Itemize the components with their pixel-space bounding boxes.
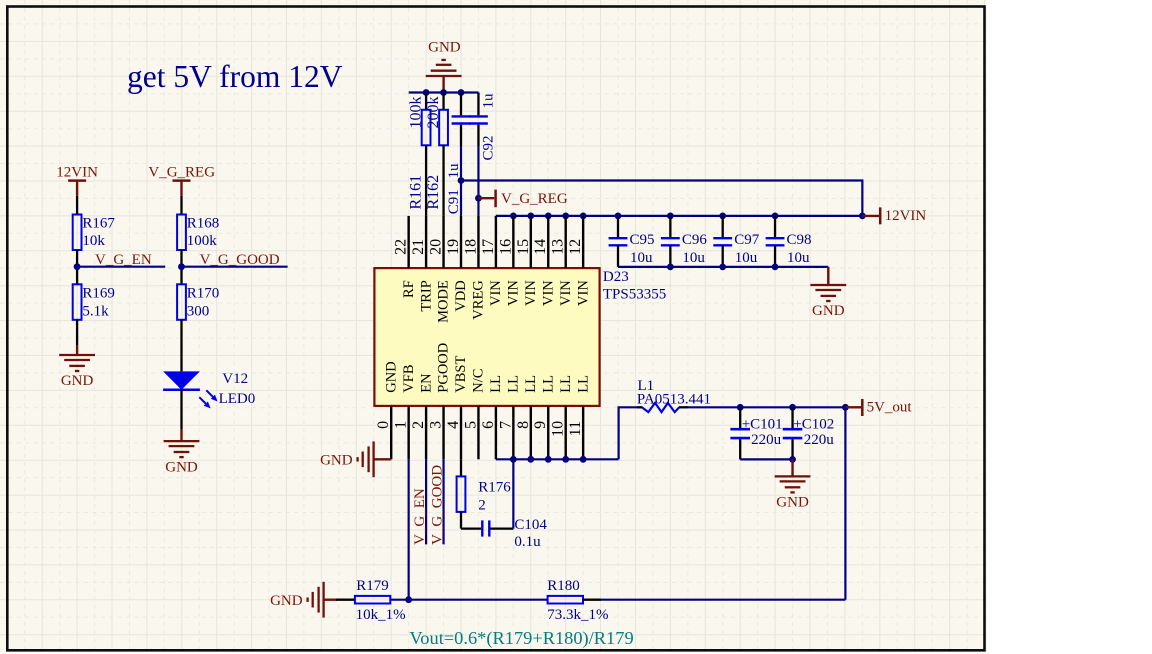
svg-text:C97: C97 bbox=[734, 232, 760, 248]
svg-text:11: 11 bbox=[567, 421, 584, 436]
inductor L1 PA0513.441 bbox=[637, 406, 642, 408]
svg-text:R179: R179 bbox=[356, 578, 389, 594]
pin 16 VIN bbox=[512, 216, 514, 268]
svg-text:TRIP: TRIP bbox=[418, 280, 434, 311]
wire 12VIN rail bbox=[496, 215, 862, 217]
svg-text:20: 20 bbox=[428, 239, 445, 255]
wire output caps ground bus bbox=[740, 458, 792, 460]
resistor R170 bbox=[177, 284, 186, 320]
wire bbox=[180, 196, 182, 215]
wire C104 to LL bus bbox=[512, 459, 514, 528]
ground GND (below R169) bbox=[76, 345, 78, 355]
svg-text:R180: R180 bbox=[547, 578, 580, 594]
svg-text:LL: LL bbox=[506, 375, 522, 393]
svg-text:1u: 1u bbox=[480, 93, 496, 109]
svg-text:2: 2 bbox=[410, 421, 427, 429]
svg-text:VDD: VDD bbox=[453, 280, 469, 311]
svg-text:V_G_GOOD: V_G_GOOD bbox=[430, 465, 446, 545]
wire VFB (pin1) down to R179 node bbox=[408, 459, 410, 599]
svg-text:R169: R169 bbox=[82, 286, 115, 302]
capacitor C98 bbox=[772, 213, 779, 220]
wire bbox=[180, 320, 182, 372]
svg-text:18: 18 bbox=[462, 239, 479, 255]
svg-text:V12: V12 bbox=[222, 371, 248, 387]
power port 12VIN (left) bbox=[68, 179, 86, 182]
pin 2 EN bbox=[425, 406, 427, 459]
ground GND (below LED) bbox=[180, 429, 182, 441]
pin 1 VFB bbox=[407, 406, 409, 459]
svg-text:RF: RF bbox=[401, 280, 417, 298]
svg-text:22: 22 bbox=[393, 239, 410, 255]
wire bbox=[583, 599, 601, 601]
svg-text:9: 9 bbox=[532, 421, 549, 429]
svg-text:73.3k_1%: 73.3k_1% bbox=[547, 607, 608, 623]
svg-text:16: 16 bbox=[497, 239, 514, 255]
svg-text:N/C: N/C bbox=[471, 369, 487, 393]
power port 12VIN (right) bbox=[859, 213, 866, 220]
pin 22 RF bbox=[407, 216, 409, 268]
wire bbox=[76, 196, 78, 215]
svg-text:TPS53355: TPS53355 bbox=[603, 286, 666, 302]
pin 15 VIN bbox=[530, 216, 532, 268]
svg-text:10u: 10u bbox=[787, 250, 810, 266]
pin 21 TRIP bbox=[425, 216, 427, 268]
node junction R162/GND top bbox=[440, 89, 447, 96]
node V_G_REG junction bbox=[458, 177, 465, 184]
capacitor C92 bbox=[477, 93, 479, 116]
resistor R169 bbox=[73, 284, 82, 320]
resistor R168 bbox=[177, 215, 186, 251]
LED V12 LED0 bbox=[163, 371, 200, 389]
pin 0 GND bbox=[390, 406, 392, 459]
wire 5V_out down to feedback bbox=[844, 407, 846, 599]
svg-text:V_G_EN: V_G_EN bbox=[412, 488, 428, 545]
svg-text:10k: 10k bbox=[82, 233, 105, 249]
svg-text:V_G_REG: V_G_REG bbox=[501, 191, 568, 207]
svg-text:MODE: MODE bbox=[436, 280, 452, 323]
svg-text:R176: R176 bbox=[478, 480, 511, 496]
svg-text:12VIN: 12VIN bbox=[885, 208, 927, 224]
pin 19 VDD bbox=[460, 216, 462, 268]
capacitor C96 bbox=[667, 213, 674, 220]
capacitor C97 bbox=[719, 213, 726, 220]
svg-text:GND: GND bbox=[383, 361, 399, 392]
wire bbox=[336, 599, 355, 601]
pin 18 VREG bbox=[477, 216, 479, 268]
ground GND (output caps) bbox=[791, 459, 793, 476]
wire LL bus up to L1 bbox=[619, 407, 638, 459]
svg-text:+C101: +C101 bbox=[742, 417, 783, 433]
svg-text:5V_out: 5V_out bbox=[867, 400, 913, 416]
svg-text:LL: LL bbox=[488, 375, 504, 393]
svg-text:4: 4 bbox=[445, 421, 462, 429]
capacitor C104 bbox=[461, 527, 481, 529]
svg-text:C98: C98 bbox=[787, 232, 812, 248]
svg-text:V_G_REG: V_G_REG bbox=[148, 165, 215, 181]
svg-text:300: 300 bbox=[187, 304, 210, 320]
svg-text:V_G_EN: V_G_EN bbox=[95, 252, 152, 268]
wire V_G_GOOD bbox=[182, 266, 288, 268]
node V_G_EN junction bbox=[74, 263, 81, 270]
svg-text:VIN: VIN bbox=[523, 280, 539, 306]
capacitor C91 bbox=[460, 93, 462, 116]
svg-text:LL: LL bbox=[523, 375, 539, 393]
wire bbox=[460, 181, 462, 216]
svg-text:200k: 200k bbox=[425, 97, 442, 129]
svg-text:LL: LL bbox=[540, 375, 556, 393]
resistor R162 bbox=[442, 93, 444, 111]
svg-text:100k: 100k bbox=[187, 233, 218, 249]
ground GND (pin 0) bbox=[374, 458, 392, 460]
svg-text:VREG: VREG bbox=[471, 280, 487, 320]
pin 7 LL bbox=[512, 406, 514, 459]
pin 4 VBST bbox=[460, 406, 462, 459]
svg-text:10: 10 bbox=[550, 421, 567, 437]
svg-text:PA0513.441: PA0513.441 bbox=[637, 391, 711, 407]
pin 11 LL bbox=[582, 406, 584, 459]
svg-text:+C102: +C102 bbox=[793, 417, 834, 433]
svg-text:0.1u: 0.1u bbox=[514, 534, 541, 550]
pin 20 MODE bbox=[442, 216, 444, 268]
svg-text:GND: GND bbox=[812, 303, 845, 319]
resistor R180 bbox=[548, 596, 583, 604]
power port V_G_REG (left) bbox=[173, 179, 191, 182]
svg-text:PGOOD: PGOOD bbox=[436, 343, 452, 393]
wire V_G_REG feed to 12VIN rail bbox=[461, 181, 862, 216]
svg-text:5: 5 bbox=[462, 421, 479, 429]
svg-text:19: 19 bbox=[445, 239, 462, 255]
svg-text:10u: 10u bbox=[630, 250, 653, 266]
svg-text:VIN: VIN bbox=[488, 280, 504, 306]
svg-text:GND: GND bbox=[61, 373, 94, 389]
svg-text:LL: LL bbox=[575, 375, 591, 393]
power port V_G_REG (at pin 18) bbox=[475, 195, 482, 202]
wire input caps ground bus bbox=[618, 266, 828, 268]
wire 5V rail bbox=[688, 406, 845, 408]
svg-text:GND: GND bbox=[270, 593, 303, 609]
svg-text:EN: EN bbox=[418, 373, 434, 393]
svg-text:Vout=0.6*(R179+R180)/R179: Vout=0.6*(R179+R180)/R179 bbox=[409, 628, 633, 649]
resistor R167 bbox=[73, 215, 82, 251]
svg-text:8: 8 bbox=[515, 421, 532, 429]
svg-text:VIN: VIN bbox=[540, 280, 556, 306]
svg-text:1: 1 bbox=[393, 421, 410, 429]
svg-text:LED0: LED0 bbox=[219, 391, 256, 407]
svg-text:R162: R162 bbox=[425, 175, 442, 210]
wire bbox=[477, 198, 479, 216]
svg-text:VBST: VBST bbox=[453, 355, 469, 392]
svg-text:C95: C95 bbox=[630, 232, 655, 248]
power port 5V_out bbox=[842, 404, 849, 411]
wire LL bus bbox=[496, 458, 619, 460]
pin 9 LL bbox=[547, 406, 549, 459]
svg-text:LL: LL bbox=[558, 375, 574, 393]
svg-text:C104: C104 bbox=[514, 517, 547, 533]
svg-text:17: 17 bbox=[480, 239, 497, 255]
svg-text:VFB: VFB bbox=[401, 364, 417, 392]
ground GND (top, above R161/R162) bbox=[442, 76, 444, 93]
pin 13 VIN bbox=[565, 216, 567, 268]
svg-text:VIN: VIN bbox=[558, 280, 574, 306]
wire bbox=[76, 320, 78, 345]
svg-text:0: 0 bbox=[375, 421, 392, 429]
ground GND (input caps) bbox=[827, 267, 829, 285]
svg-text:21: 21 bbox=[410, 239, 427, 255]
svg-text:6: 6 bbox=[480, 421, 497, 429]
capacitor C95 bbox=[615, 213, 622, 220]
svg-text:15: 15 bbox=[515, 239, 532, 255]
pin 6 LL bbox=[495, 406, 497, 459]
ground GND (R179) bbox=[324, 599, 337, 601]
wire bbox=[180, 250, 182, 284]
svg-text:12: 12 bbox=[567, 239, 584, 255]
svg-text:12VIN: 12VIN bbox=[56, 165, 98, 181]
svg-text:220u: 220u bbox=[751, 432, 782, 448]
pin 10 LL bbox=[565, 406, 567, 459]
svg-text:D23: D23 bbox=[603, 269, 629, 285]
pin 5 N/C bbox=[477, 406, 479, 459]
capacitor C102 bbox=[789, 404, 796, 411]
svg-text:GND: GND bbox=[165, 459, 198, 475]
wire bbox=[76, 250, 78, 284]
svg-text:GND: GND bbox=[776, 495, 809, 511]
svg-text:7: 7 bbox=[497, 421, 514, 429]
svg-text:C96: C96 bbox=[682, 232, 708, 248]
node junction R161 top bbox=[423, 89, 430, 96]
capacitor C101 bbox=[737, 404, 744, 411]
svg-text:C92: C92 bbox=[480, 135, 496, 160]
svg-text:R167: R167 bbox=[82, 215, 115, 231]
wire top gnd bus bbox=[409, 91, 479, 93]
svg-text:R168: R168 bbox=[187, 215, 220, 231]
svg-text:2: 2 bbox=[478, 498, 486, 514]
svg-text:get 5V from 12V: get 5V from 12V bbox=[127, 59, 343, 94]
node V_G_GOOD junction bbox=[178, 263, 185, 270]
pin 17 VIN bbox=[495, 216, 497, 268]
resistor R161 bbox=[425, 93, 427, 111]
svg-text:10k_1%: 10k_1% bbox=[356, 607, 406, 623]
pin 12 VIN bbox=[582, 216, 584, 268]
svg-text:14: 14 bbox=[532, 239, 549, 255]
svg-text:R161: R161 bbox=[407, 175, 424, 210]
wire EN (pin2) bbox=[425, 459, 427, 544]
pin 8 LL bbox=[530, 406, 532, 459]
node junction C91 top bbox=[458, 89, 465, 96]
svg-text:R170: R170 bbox=[187, 286, 220, 302]
op-amp U1 IC D23 TPS53355 body bbox=[374, 268, 599, 406]
wire V_G_EN bbox=[77, 266, 165, 268]
svg-text:220u: 220u bbox=[804, 432, 835, 448]
wire bbox=[390, 599, 547, 601]
svg-text:VIN: VIN bbox=[506, 280, 522, 306]
resistor R179 bbox=[355, 596, 390, 604]
svg-text:V_G_GOOD: V_G_GOOD bbox=[200, 252, 280, 268]
svg-text:GND: GND bbox=[320, 453, 353, 469]
wire PGOOD (pin3) bbox=[442, 459, 444, 544]
svg-text:100k: 100k bbox=[407, 97, 424, 129]
svg-text:C91: C91 bbox=[446, 189, 462, 214]
svg-text:3: 3 bbox=[428, 421, 445, 429]
svg-text:10u: 10u bbox=[735, 250, 758, 266]
svg-text:GND: GND bbox=[428, 40, 461, 56]
pin 14 VIN bbox=[547, 216, 549, 268]
svg-text:5.1k: 5.1k bbox=[82, 304, 109, 320]
svg-text:1u: 1u bbox=[446, 163, 462, 179]
svg-text:10u: 10u bbox=[682, 250, 705, 266]
wire bbox=[180, 390, 182, 429]
svg-text:VIN: VIN bbox=[575, 280, 591, 306]
resistor R176 bbox=[460, 459, 462, 476]
svg-text:13: 13 bbox=[550, 239, 567, 255]
pin 3 PGOOD bbox=[442, 406, 444, 459]
